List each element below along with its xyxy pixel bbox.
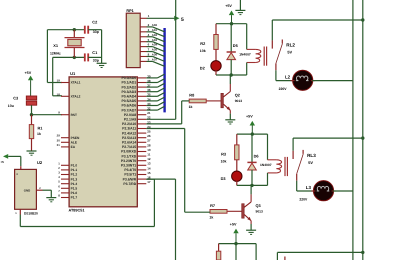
lamp L3 — [313, 181, 333, 201]
svg-text:C2: C2 — [92, 20, 98, 25]
U1 pin 5 P1.4 — [61, 183, 69, 185]
wire XTAL1 net (crystal top / C2 left) — [47, 29, 84, 31]
svg-text:P3.6/WR: P3.6/WR — [123, 177, 137, 181]
U1 pin 25 P2.4/A12 — [137, 132, 146, 134]
svg-text:9013: 9013 — [235, 99, 243, 103]
svg-text:1k: 1k — [209, 216, 213, 220]
svg-text:P3.2/INT0: P3.2/INT0 — [121, 159, 136, 163]
svg-text:10u: 10u — [8, 104, 14, 108]
svg-text:1N4007: 1N4007 — [239, 53, 251, 57]
svg-text:5: 5 — [181, 17, 184, 23]
svg-text:C3: C3 — [13, 96, 19, 101]
U1 pin 7 P1.6 — [61, 192, 69, 194]
svg-text:AD5: AD5 — [152, 49, 158, 52]
U1 pin 31 EA — [61, 146, 69, 148]
svg-text:14: 14 — [147, 166, 151, 170]
U1 pin 15 P3.5/T1 — [137, 174, 146, 176]
svg-text:28: 28 — [147, 143, 151, 147]
transistor Q3 — [250, 185, 252, 194]
svg-text:25: 25 — [147, 130, 151, 134]
microcontroller U1 AT89C51 — [69, 77, 137, 207]
svg-text:P0.5/AD5: P0.5/AD5 — [121, 99, 136, 103]
wire +5V rail (Q3 channel) — [237, 133, 268, 135]
svg-text:P0.6/AD6: P0.6/AD6 — [121, 104, 136, 108]
svg-text:+5V: +5V — [25, 71, 32, 75]
svg-text:R8: R8 — [189, 93, 195, 98]
wire P2.3 to R7 — [146, 128, 184, 130]
U1 pin 35 P0.4/AD4 — [137, 95, 146, 97]
U1 pin 13 P3.3/INT1 — [137, 164, 146, 166]
U1 pin 23 P2.2/A10 — [137, 123, 146, 125]
svg-text:P2.7/A15: P2.7/A15 — [122, 145, 136, 149]
U1 pin 21 P2.0/A8 — [137, 114, 146, 116]
U1 pin 14 P3.4/T0 — [137, 169, 146, 171]
wire C2/C1 right to ground — [101, 30, 103, 64]
svg-text:P1.4: P1.4 — [71, 182, 78, 186]
svg-text:AD4: AD4 — [152, 44, 158, 47]
U1 pin 34 P0.5/AD5 — [137, 100, 146, 102]
svg-text:P0.3/AD3: P0.3/AD3 — [121, 90, 136, 94]
svg-text:11: 11 — [147, 153, 151, 157]
svg-text:30: 30 — [57, 138, 61, 142]
svg-text:13: 13 — [147, 162, 151, 166]
svg-text:17: 17 — [147, 180, 151, 184]
U1 pin 10 P3.0/RXD — [137, 151, 146, 153]
svg-text:P2.2/A10: P2.2/A10 — [122, 122, 136, 126]
relay RL2 coil — [246, 24, 248, 50]
svg-text:P1.1: P1.1 — [71, 168, 78, 172]
node crystal-top junction — [73, 28, 76, 31]
svg-text:RP1: RP1 — [126, 9, 133, 13]
U1 pin 16 P3.6/WR — [137, 178, 146, 180]
transistor Q2 — [229, 75, 231, 84]
svg-text:1k: 1k — [189, 105, 193, 109]
svg-text:P1.2: P1.2 — [71, 173, 78, 177]
diode D6 1N4007 — [251, 134, 253, 162]
svg-text:33p: 33p — [93, 30, 99, 34]
svg-text:26: 26 — [147, 134, 151, 138]
capacitor C3 (electrolytic) — [26, 96, 36, 100]
ground (oscillator) — [97, 62, 107, 64]
svg-text:D2: D2 — [200, 66, 206, 71]
pin 2 wire of U2 to ground — [36, 189, 42, 191]
svg-text:AD1: AD1 — [152, 29, 158, 32]
svg-text:P0.7/AD7: P0.7/AD7 — [121, 108, 136, 112]
svg-text:C1: C1 — [92, 50, 98, 55]
relay RL4 coil wire (channel 3) — [255, 244, 257, 260]
svg-text:1N4007: 1N4007 — [260, 163, 272, 167]
wire lamp L2 to N1 — [312, 80, 353, 82]
node crystal-bottom junction — [73, 56, 76, 59]
diode branch (channel 3) — [235, 244, 237, 260]
svg-text:R3: R3 — [221, 152, 227, 157]
svg-text:P3.4/T0: P3.4/T0 — [124, 168, 136, 172]
wire XTAL2 net (crystal bottom / C1 left) — [53, 56, 85, 58]
ground (Q2) — [225, 119, 235, 121]
svg-text:AD0: AD0 — [152, 24, 158, 27]
wire U2 VDD — [20, 156, 22, 166]
svg-text:R1: R1 — [38, 125, 44, 130]
svg-text:18: 18 — [57, 92, 61, 96]
svg-text:31: 31 — [57, 143, 61, 147]
svg-text:P1.0: P1.0 — [71, 164, 78, 168]
U1 pin 36 P0.3/AD3 — [137, 91, 146, 93]
svg-text:RST: RST — [71, 113, 77, 117]
LED D2 — [211, 61, 221, 71]
svg-text:GND: GND — [24, 189, 30, 193]
svg-text:P0.0/AD0: P0.0/AD0 — [121, 76, 136, 80]
svg-text:P2.3/A11: P2.3/A11 — [122, 127, 136, 131]
ground flag at top edge — [239, 0, 241, 10]
RP1 pin 1 wire to +5V power flag — [140, 17, 146, 19]
wire C3 to RST node — [31, 105, 33, 115]
svg-text:PSEN: PSEN — [71, 136, 80, 140]
svg-text:29: 29 — [57, 134, 61, 138]
wire RST to U1 — [32, 114, 63, 116]
svg-text:XTAL2: XTAL2 — [71, 95, 81, 99]
power +5V flag (U2, pointing left) — [3, 154, 8, 159]
U1 pin 12 P3.2/INT0 — [137, 160, 146, 162]
svg-text:P3.0/RXD: P3.0/RXD — [121, 150, 137, 154]
diode D5 1N4007 — [230, 24, 232, 52]
svg-text:P2.5/A13: P2.5/A13 — [122, 136, 136, 140]
svg-text:XTAL1: XTAL1 — [71, 81, 81, 85]
U1 pin 39 P0.0/AD0 — [137, 77, 146, 79]
svg-text:P3.7/RD: P3.7/RD — [123, 182, 136, 186]
ground (Q3) — [246, 229, 256, 231]
svg-text:R2: R2 — [200, 41, 206, 46]
svg-text:RL2: RL2 — [286, 43, 295, 48]
svg-text:220V: 220V — [299, 197, 308, 201]
wire +5V rail (channel 3) — [219, 243, 257, 245]
U1 pin 22 P2.1/A9 — [137, 118, 146, 120]
svg-text:U2: U2 — [37, 160, 43, 165]
svg-text:P0.1/AD1: P0.1/AD1 — [121, 81, 136, 85]
resistor R1 — [31, 115, 33, 125]
wire N2 (contact supply line) — [362, 0, 364, 260]
relay RL2 contact — [271, 20, 273, 40]
svg-text:10: 10 — [147, 148, 151, 152]
svg-text:AD2: AD2 — [152, 34, 158, 37]
svg-text:Q3: Q3 — [256, 203, 262, 208]
ground bars (top) — [235, 9, 245, 11]
crystal X1 — [73, 30, 75, 38]
svg-text:220V: 220V — [279, 87, 288, 91]
wire P3.6 down to channel 3 (off-screen) — [146, 178, 175, 180]
svg-text:15: 15 — [147, 171, 151, 175]
svg-text:P2.6/A14: P2.6/A14 — [122, 141, 136, 145]
svg-text:AD6: AD6 — [152, 54, 158, 57]
RP1 pins 2-9 bus entries — [140, 26, 146, 28]
svg-text:DS18B20: DS18B20 — [24, 212, 38, 216]
bus entries P0.0-P0.7 — [146, 77, 157, 79]
relay RL3 contact — [292, 138, 294, 151]
wire +5V rail (Q2 channel) — [216, 23, 247, 25]
U1 pin 11 P3.1/TXD — [137, 155, 146, 157]
svg-text:P1.7: P1.7 — [71, 196, 78, 200]
svg-text:P1.3: P1.3 — [71, 177, 78, 181]
svg-text:1k: 1k — [37, 132, 41, 136]
svg-text:R7: R7 — [210, 203, 215, 208]
svg-text:P3.1/TXD: P3.1/TXD — [121, 154, 136, 158]
svg-text:P3.5/T1: P3.5/T1 — [124, 173, 136, 177]
svg-text:10k: 10k — [200, 49, 206, 53]
wire lamp L3 to N1 — [333, 190, 353, 192]
U1 pin 26 P2.5/A13 — [137, 137, 146, 139]
wire RL3 to lamp L3 — [296, 181, 298, 191]
svg-text:L3: L3 — [306, 185, 312, 190]
svg-text:+5V: +5V — [230, 223, 237, 227]
U1 pin 19 XTAL1 — [61, 82, 69, 84]
svg-text:+5V: +5V — [246, 114, 253, 118]
wire RL2 contact to N2 — [272, 19, 363, 21]
svg-text:P0.4/AD4: P0.4/AD4 — [121, 95, 136, 99]
ground (R1) — [27, 150, 37, 152]
wire U2 DQ down and right (1-wire bus) — [19, 209, 21, 214]
svg-text:EA: EA — [71, 145, 76, 149]
svg-text:X1: X1 — [53, 43, 59, 48]
svg-text:19: 19 — [57, 79, 61, 83]
LED D3 — [232, 171, 242, 181]
svg-text:33p: 33p — [93, 59, 99, 63]
U1 pin 33 P0.6/AD6 — [137, 105, 146, 107]
svg-text:AD7: AD7 — [152, 59, 158, 62]
svg-text:P2.0/A8: P2.0/A8 — [124, 113, 136, 117]
svg-text:12MHz: 12MHz — [50, 52, 61, 56]
U1 pin 2 P1.1 — [61, 169, 69, 171]
svg-text:12: 12 — [147, 157, 151, 161]
lamp L2 — [293, 70, 313, 90]
U1 pin 1 P1.0 — [61, 164, 69, 166]
wire P2.1 up to cropped channel above — [146, 118, 175, 120]
svg-text:P3.3/INT1: P3.3/INT1 — [121, 164, 136, 168]
svg-text:ALE: ALE — [71, 141, 77, 145]
U1 pin 9 RST — [61, 114, 69, 116]
relay RL3 core — [284, 157, 286, 176]
wire RL3 contact to N2 — [293, 137, 363, 139]
wire collector node (Q3) — [237, 184, 268, 186]
svg-text:U1: U1 — [70, 71, 76, 76]
resistor R3 — [236, 134, 238, 145]
svg-text:P1.6: P1.6 — [71, 191, 78, 195]
wire collector node (Q2) — [216, 74, 247, 76]
resistor R2 — [215, 24, 217, 35]
resistor R8 (base) — [206, 100, 221, 102]
U1 pin 8 P1.7 — [61, 197, 69, 199]
U1 pin 3 P1.2 — [61, 174, 69, 176]
U1 pin 37 P0.2/AD2 — [137, 86, 146, 88]
U1 pin 29 PSEN — [61, 137, 69, 139]
U1 pin 6 P1.5 — [61, 187, 69, 189]
relay RL3 coil — [267, 134, 269, 160]
wire RL2 to lamp L2 — [275, 70, 277, 80]
svg-text:Q2: Q2 — [235, 93, 241, 98]
resistor pack RP1 — [126, 13, 140, 67]
resistor R7 (base) — [227, 210, 242, 212]
U1 pin 24 P2.3/A11 — [137, 128, 146, 130]
U1 pin 4 P1.3 — [61, 178, 69, 180]
U1 pin 18 XTAL2 — [61, 95, 69, 97]
U1 pin 28 P2.7/A15 — [137, 146, 146, 148]
wire P2.2 to R8 — [146, 123, 181, 125]
svg-text:21: 21 — [147, 111, 151, 115]
wire N1 (lamp return line) — [352, 0, 354, 260]
bus AD0-AD7 — [163, 28, 165, 112]
svg-text:+5: +5 — [0, 160, 4, 164]
svg-text:27: 27 — [147, 139, 151, 143]
U1 pin 32 P0.7/AD7 — [137, 109, 146, 111]
svg-text:D6: D6 — [254, 153, 260, 158]
svg-text:AT89C51: AT89C51 — [69, 209, 85, 213]
svg-text:L2: L2 — [285, 75, 291, 80]
capacitor C1 — [84, 53, 86, 61]
svg-text:P2.4/A12: P2.4/A12 — [122, 131, 136, 135]
svg-text:P2.1/A9: P2.1/A9 — [124, 118, 136, 122]
sensor U2 DS18B20 — [20, 166, 22, 169]
resistor R4 — [218, 244, 220, 252]
svg-text:9013: 9013 — [256, 210, 264, 214]
svg-text:RL3: RL3 — [307, 153, 316, 158]
svg-text:AD3: AD3 — [152, 39, 158, 42]
svg-text:10k: 10k — [221, 159, 227, 163]
svg-text:D3: D3 — [221, 176, 227, 181]
relay RL4 contact wire to N2 — [276, 252, 278, 260]
ground (U2) — [46, 197, 56, 199]
svg-text:D5: D5 — [233, 43, 239, 48]
U1 pin 30 ALE — [61, 141, 69, 143]
U1 pin 38 P0.1/AD1 — [137, 82, 146, 84]
svg-text:5V: 5V — [287, 50, 292, 55]
relay RL2 core — [263, 47, 265, 66]
svg-text:P1.5: P1.5 — [71, 187, 78, 191]
svg-text:+5V: +5V — [225, 4, 232, 8]
svg-text:5V: 5V — [308, 160, 313, 165]
svg-text:P0.2/AD2: P0.2/AD2 — [121, 85, 136, 89]
U1 pin 27 P2.6/A14 — [137, 141, 146, 143]
U1 pin 17 P3.7/RD — [137, 183, 146, 185]
capacitor C2 — [84, 26, 86, 34]
node RST junction — [30, 113, 33, 116]
